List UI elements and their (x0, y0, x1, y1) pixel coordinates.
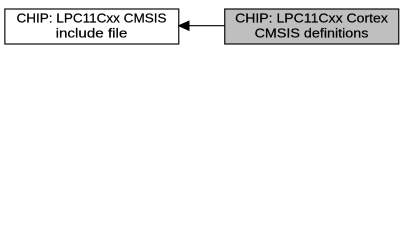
edge wire: dependency arrow shaft (189, 25, 225, 27)
node box (current, grey): CHIP: LPC11Cxx Cortex CMSIS definitions (225, 9, 399, 44)
background (0, 0, 403, 52)
svg-text:include file: include file (56, 26, 128, 41)
node label line 2: include file (56, 26, 128, 41)
edge arrowhead pointing at left node (179, 21, 189, 30)
svg-text:CHIP: LPC11Cxx Cortex: CHIP: LPC11Cxx Cortex (235, 11, 388, 26)
svg-text:CMSIS definitions: CMSIS definitions (255, 26, 369, 41)
svg-text:CHIP: LPC11Cxx CMSIS: CHIP: LPC11Cxx CMSIS (17, 11, 167, 26)
node label line 1: CHIP: LPC11Cxx CMSIS (17, 11, 167, 26)
node label line 2: CMSIS definitions (255, 26, 369, 41)
node box: CHIP: LPC11Cxx CMSIS include file (5, 9, 179, 44)
node label line 1: CHIP: LPC11Cxx Cortex (235, 11, 388, 26)
